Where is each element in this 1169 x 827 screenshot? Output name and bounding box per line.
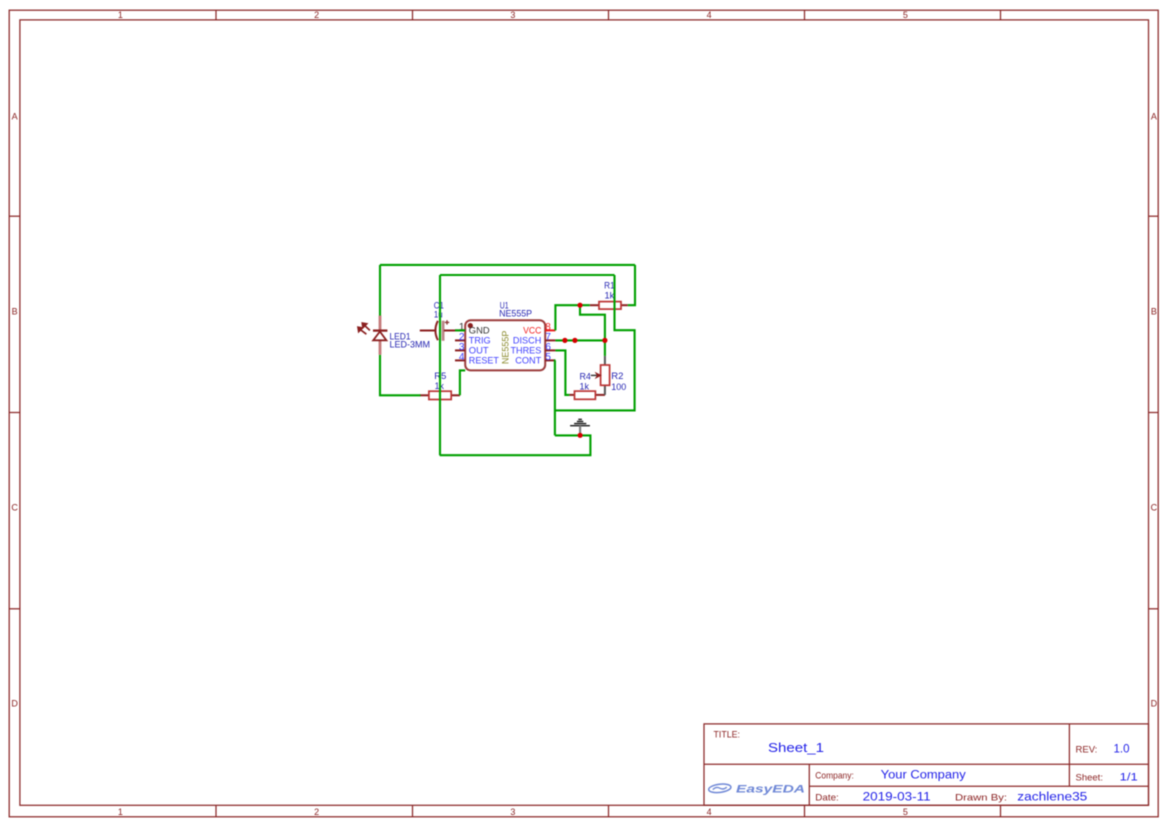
potentiometer R2 wiper arrow (591, 373, 601, 378)
ground symbol (570, 419, 590, 433)
svg-text:1/1: 1/1 (1120, 772, 1138, 784)
svg-text:Drawn By:: Drawn By: (955, 792, 1007, 803)
svg-text:zachlene35: zachlene35 (1017, 791, 1087, 803)
svg-text:3: 3 (510, 10, 515, 20)
svg-text:2: 2 (314, 807, 319, 817)
label C1 1u (434, 300, 444, 319)
wire THRES down to R4 (555, 350, 569, 395)
svg-text:D: D (1151, 698, 1158, 708)
svg-text:R4: R4 (580, 372, 591, 382)
frame row labels left (11, 111, 18, 708)
svg-text:4: 4 (707, 807, 712, 817)
resistor R1 (1k) body (590, 302, 628, 310)
wire lower right rail (555, 275, 635, 410)
wire DISCH node down to R2 (604, 340, 606, 356)
svg-text:R1: R1 (604, 281, 615, 291)
svg-text:Sheet_1: Sheet_1 (768, 741, 824, 755)
svg-text:TITLE:: TITLE: (714, 729, 740, 739)
label R4 1k (580, 372, 591, 392)
wire pin8 VCC up and to R1 (555, 305, 589, 330)
frame row labels right (1151, 111, 1158, 708)
title block texts (714, 729, 1103, 803)
svg-text:Your Company: Your Company (881, 770, 966, 782)
U1 pin 8 stub (VCC, red) (545, 329, 555, 331)
label U1 NE555P (499, 301, 532, 319)
svg-text:A: A (1151, 111, 1157, 121)
wire CONT down to ground row (554, 360, 557, 435)
svg-text:D: D (11, 698, 18, 708)
svg-text:4: 4 (707, 10, 712, 20)
label LED1 LED-3MM (390, 331, 431, 349)
svg-text:R2: R2 (611, 371, 623, 381)
svg-text:Date:: Date: (815, 792, 839, 803)
U1 pin numbers left (459, 322, 465, 363)
svg-text:B: B (1151, 306, 1157, 316)
svg-text:1.0: 1.0 (1114, 744, 1130, 756)
junction dot ground (578, 433, 583, 438)
svg-text:B: B (12, 306, 18, 316)
EasyEDA logo (708, 783, 805, 796)
svg-text:1k: 1k (580, 381, 590, 391)
svg-text:2019-03-11: 2019-03-11 (863, 791, 931, 803)
svg-text:LED-3MM: LED-3MM (390, 340, 431, 350)
LED1 (LED-3MM) symbol (373, 316, 387, 355)
resistor R4 (1k) body (569, 391, 605, 399)
junction dot DISCH b (572, 338, 577, 343)
svg-text:RESET: RESET (469, 356, 499, 367)
LED1 emission arrows (358, 323, 370, 334)
svg-text:C: C (11, 503, 18, 513)
resistor R5 (1k) body (420, 391, 460, 399)
svg-text:C: C (1151, 503, 1158, 513)
svg-text:2: 2 (314, 10, 319, 20)
wire R1 right to top rail (628, 265, 635, 305)
label R5 1k (434, 371, 446, 391)
wire R5 right to chip corner (460, 370, 465, 395)
svg-text:NE555P: NE555P (501, 331, 512, 365)
wire left vertical upper to LED (379, 265, 381, 316)
svg-text:A: A (12, 111, 18, 121)
title block (704, 724, 1149, 805)
IC U1 NE555P body (465, 320, 545, 370)
wire DISCH (555, 339, 605, 341)
junction dot DISCH node (602, 338, 607, 343)
svg-text:Sheet:: Sheet: (1076, 773, 1103, 784)
frame column labels top (118, 10, 908, 20)
svg-text:3: 3 (510, 807, 515, 817)
svg-text:1: 1 (118, 807, 123, 817)
label R2 100 (611, 371, 626, 392)
U1 pin stubs left (1,2,3,4) (455, 330, 465, 360)
wire vertical through C1 and R5 (439, 275, 441, 455)
svg-text:5: 5 (903, 807, 908, 817)
svg-text:1: 1 (118, 10, 123, 20)
U1 pin names right (511, 326, 542, 367)
junction dot at R1 left (577, 303, 582, 308)
wire LED to R5 row (380, 355, 421, 395)
wire C1 to pin1 (455, 329, 465, 331)
svg-text:CONT: CONT (515, 356, 541, 367)
svg-text:5: 5 (545, 352, 551, 363)
wire second rail (440, 274, 615, 276)
frame column labels bottom (118, 807, 908, 817)
wire junction to DISCH node (580, 305, 605, 340)
svg-text:100: 100 (611, 382, 626, 392)
svg-text:NE555P: NE555P (499, 309, 532, 319)
svg-text:REV:: REV: (1076, 745, 1098, 756)
svg-text:5: 5 (903, 10, 908, 20)
svg-text:EasyEDA: EasyEDA (736, 783, 805, 795)
svg-text:1u: 1u (434, 310, 443, 320)
U1 pin numbers right (545, 322, 551, 363)
U1 pin stubs right (7,6,5) (545, 340, 555, 360)
svg-text:4: 4 (459, 352, 465, 363)
label R1 1k (604, 281, 615, 301)
svg-text:1k: 1k (605, 291, 615, 301)
potentiometer R2 (100) vertical body (601, 356, 610, 395)
wire top VCC rail (380, 264, 635, 266)
capacitor C1 (1u) polarized (420, 320, 455, 341)
U1 pin names left (469, 326, 499, 367)
junction dot DISCH a (562, 338, 567, 343)
wire ground row (440, 435, 591, 455)
svg-text:Company:: Company: (815, 771, 854, 782)
